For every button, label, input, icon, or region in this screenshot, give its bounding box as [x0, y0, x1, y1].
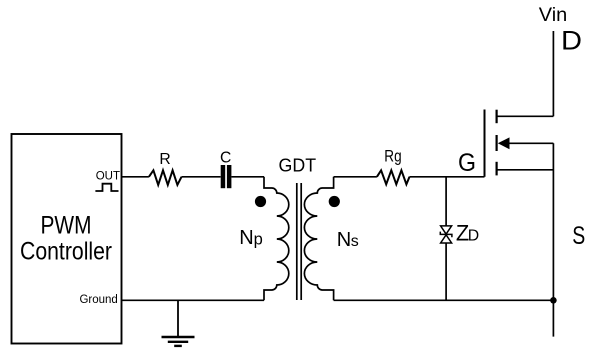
svg-text:N: N	[239, 227, 253, 249]
svg-text:D: D	[468, 227, 479, 244]
svg-text:G: G	[458, 150, 476, 177]
svg-text:N: N	[337, 229, 351, 251]
svg-text:GDT: GDT	[279, 155, 317, 176]
svg-text:Ground: Ground	[79, 294, 117, 306]
svg-text:S: S	[572, 222, 585, 250]
svg-text:OUT: OUT	[96, 171, 120, 183]
svg-text:R: R	[159, 151, 170, 168]
svg-text:s: s	[351, 233, 359, 250]
svg-text:D: D	[561, 25, 582, 55]
svg-text:Vin: Vin	[539, 4, 568, 26]
svg-text:Rg: Rg	[384, 147, 401, 166]
svg-text:PWM: PWM	[41, 212, 92, 240]
svg-text:Controller: Controller	[20, 237, 112, 265]
svg-text:p: p	[254, 230, 263, 248]
svg-text:C: C	[220, 150, 231, 167]
